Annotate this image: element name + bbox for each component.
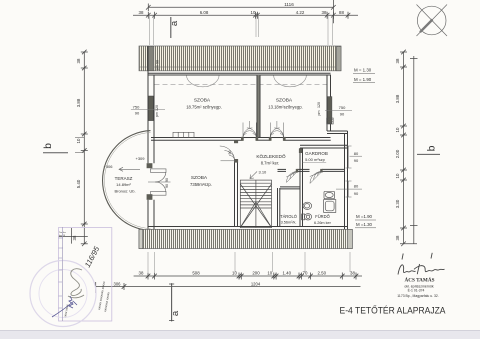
svg-text:90: 90 <box>228 151 232 155</box>
section marker b left <box>42 143 68 153</box>
svg-text:38: 38 <box>139 271 144 276</box>
svg-text:10: 10 <box>395 173 400 178</box>
left wall window dim leader <box>131 109 165 111</box>
tarolo top wall <box>280 187 300 189</box>
chimney symbol at corner <box>327 118 334 124</box>
left wall window (dark) <box>148 96 153 121</box>
svg-text:120: 120 <box>317 102 321 108</box>
stamp rectangle <box>59 228 112 322</box>
terrace french door leaves <box>148 169 171 195</box>
svg-text:14.89m²: 14.89m² <box>116 182 131 187</box>
door swing szoba-kozlekedo <box>220 146 235 161</box>
svg-text:pm: pm <box>317 111 321 116</box>
svg-text:38: 38 <box>139 10 144 15</box>
crease line <box>62 227 64 321</box>
svg-text:1173 Bp., Magyarfalu u. 32.: 1173 Bp., Magyarfalu u. 32. <box>397 294 438 298</box>
stamp inner faint text lines <box>63 281 110 319</box>
svg-text:M = 1.30: M = 1.30 <box>354 68 372 73</box>
svg-text:1116: 1116 <box>284 2 294 7</box>
svg-text:ker 15: ker 15 <box>59 234 66 237</box>
gardrob closet line <box>303 162 327 164</box>
svg-text:SZOBA: SZOBA <box>191 175 208 181</box>
svg-text:SZOBA: SZOBA <box>276 98 293 104</box>
svg-text:b: b <box>42 143 54 149</box>
top dimension line 2 segments <box>133 12 358 19</box>
extension stubs above building <box>150 16 333 45</box>
svg-text:10: 10 <box>251 10 256 15</box>
top balcony hatched strip <box>139 46 341 71</box>
right wall window (dark) <box>327 97 332 124</box>
right dimension column <box>400 50 418 246</box>
svg-text:6.26m ker: 6.26m ker <box>314 221 332 225</box>
svg-text:750: 750 <box>339 105 346 110</box>
middle wall between SZOBA1 and SZOBA2 <box>257 75 260 138</box>
FURDO fixtures <box>302 191 336 220</box>
svg-text:3.88: 3.88 <box>76 98 81 107</box>
svg-text:1.40: 1.40 <box>283 271 292 276</box>
radiator symbol SZOBA1 <box>173 132 194 137</box>
top dimension line 1116 total <box>148 6 333 8</box>
section marker a top <box>169 17 180 38</box>
svg-text:2.00: 2.00 <box>395 149 400 158</box>
svg-text:90: 90 <box>354 191 359 196</box>
extension stubs below balcony <box>148 252 350 272</box>
bottom dimension line B (1204 total) <box>96 282 361 293</box>
right wall upper (SZOBA2) <box>327 75 331 132</box>
toilet lower with cistern <box>302 214 305 220</box>
stairs <box>240 180 271 227</box>
svg-text:90: 90 <box>354 158 359 163</box>
svg-text:90: 90 <box>135 111 140 116</box>
left dimension column <box>59 50 88 246</box>
svg-text:Bronos: Ub.: Bronos: Ub. <box>114 189 135 194</box>
bathtub <box>324 200 336 213</box>
svg-text:90: 90 <box>165 178 169 182</box>
balcony door swing SZOBA2 <box>274 75 307 87</box>
mid horizontal wall H2 <box>151 138 331 141</box>
terrace door posts <box>147 163 153 168</box>
svg-text:FÜRDŐ: FÜRDŐ <box>315 214 330 219</box>
svg-text:pm: pm <box>156 65 160 70</box>
vestibule door to TAROLO <box>286 171 297 182</box>
svg-text:2.50: 2.50 <box>318 271 327 276</box>
svg-text:KÖZLEKEDŐ: KÖZLEKEDŐ <box>256 153 286 160</box>
section marker b right <box>417 145 440 154</box>
svg-text:88: 88 <box>339 10 344 15</box>
terrace arc <box>103 131 151 231</box>
80/90 leader upper (gardrob) <box>346 146 363 168</box>
svg-text:b: b <box>426 145 438 151</box>
wall V8 between tarolo and furdo <box>300 148 303 227</box>
top dim labels <box>139 10 345 15</box>
svg-text:+309: +309 <box>136 156 146 161</box>
svg-text:38: 38 <box>395 58 400 63</box>
corridor wall with door gaps <box>278 169 345 171</box>
svg-text:8.7m² ker.: 8.7m² ker. <box>261 161 280 166</box>
svg-text:13.18m²szőnyegp.: 13.18m²szőnyegp. <box>268 105 302 110</box>
top wall (balcony edge) double line <box>148 73 331 75</box>
svg-text:pm: pm <box>155 112 159 117</box>
M=190 / M=130 labels right mid <box>355 214 376 228</box>
svg-text:3.56m²/k.: 3.56m²/k. <box>281 221 297 225</box>
svg-text:10: 10 <box>267 271 272 276</box>
washbasin <box>324 191 335 198</box>
step wall top-right corner <box>327 131 348 134</box>
svg-text:SZOBA: SZOBA <box>194 98 211 104</box>
svg-text:90: 90 <box>165 184 169 188</box>
svg-text:10: 10 <box>395 127 400 132</box>
svg-text:90: 90 <box>340 112 345 117</box>
svg-text:200: 200 <box>252 271 260 276</box>
right wall lower <box>345 131 348 230</box>
svg-text:306: 306 <box>114 281 122 286</box>
80/90 leader lower (furdo) <box>336 181 362 197</box>
svg-text:38: 38 <box>72 235 77 240</box>
architect signature handwriting <box>398 253 445 275</box>
svg-text:10: 10 <box>232 271 237 276</box>
svg-text:7359m²szp.: 7359m²szp. <box>190 182 212 187</box>
section marker a bottom <box>169 283 181 321</box>
svg-text:M = 1.90: M = 1.90 <box>354 77 372 82</box>
balcony door swing SZOBA1 <box>187 75 220 87</box>
svg-text:120: 120 <box>155 105 159 111</box>
svg-text:E-4 TETŐTÉR ALAPRAJZA: E-4 TETŐTÉR ALAPRAJZA <box>340 305 447 316</box>
svg-text:508: 508 <box>192 271 200 276</box>
M=130 / M=190 labels top right <box>353 68 375 83</box>
GARDROB top wall <box>300 145 348 148</box>
arrow terrace <box>119 167 140 171</box>
svg-text:80: 80 <box>354 184 359 189</box>
svg-text:GARDROB: GARDROB <box>305 151 328 156</box>
scanner grey band bottom <box>0 331 480 339</box>
svg-text:70: 70 <box>303 271 308 276</box>
svg-text:TÁROLÓ: TÁROLÓ <box>280 214 297 219</box>
north symbol circle-X <box>417 5 448 37</box>
bottom exterior wall <box>148 227 348 230</box>
svg-text:38: 38 <box>322 10 327 15</box>
svg-text:M =1.30: M =1.30 <box>356 222 373 227</box>
svg-text:10: 10 <box>76 138 81 143</box>
svg-text:6.08: 6.08 <box>200 10 209 15</box>
svg-text:3.88: 3.88 <box>395 94 400 103</box>
svg-text:5.40: 5.40 <box>76 179 81 188</box>
svg-text:1204: 1204 <box>251 281 261 286</box>
signature squiggle dark <box>68 269 84 298</box>
svg-text:a: a <box>170 310 181 316</box>
FURDO door fan <box>310 171 322 183</box>
door posts on mid wall <box>241 137 244 141</box>
svg-text:Tsz fsz: Tsz fsz <box>59 232 66 234</box>
svg-text:80: 80 <box>354 151 359 156</box>
svg-text:É-1 01-374: É-1 01-374 <box>408 288 425 293</box>
bottom balcony hatched strip <box>139 229 352 248</box>
svg-text:38: 38 <box>76 58 81 63</box>
svg-text:a: a <box>169 20 180 26</box>
svg-text:3.10: 3.10 <box>259 170 268 175</box>
wall V6 between szoba and stairs <box>235 159 238 227</box>
door posts corridor <box>296 169 298 173</box>
svg-text:750: 750 <box>133 104 140 109</box>
seal circle <box>30 261 96 327</box>
wall V7 right of stairs <box>278 188 280 227</box>
left dim tick dashes mid <box>75 137 84 139</box>
svg-text:3.30: 3.30 <box>395 199 400 208</box>
svg-text:ÁCS TAMÁS: ÁCS TAMÁS <box>405 276 435 284</box>
svg-text:90: 90 <box>156 60 160 64</box>
svg-text:38: 38 <box>350 271 355 276</box>
bottom dimension line A <box>134 273 362 280</box>
svg-text:18.75m² szőnyegp.: 18.75m² szőnyegp. <box>186 105 222 110</box>
left exterior wall <box>148 46 154 230</box>
svg-text:38: 38 <box>395 235 400 240</box>
door fan SZOBA2 (double leaf) <box>270 121 283 137</box>
svg-text:M =1.90: M =1.90 <box>356 214 373 219</box>
svg-text:TERASZ: TERASZ <box>115 176 133 181</box>
svg-text:5.00 m²szp: 5.00 m²szp <box>305 157 326 162</box>
door fan SZOBA1 (double leaf) <box>243 121 256 137</box>
dashed roof line upper rooms <box>155 84 330 86</box>
toilet upper <box>303 202 312 209</box>
svg-text:4.22: 4.22 <box>296 10 305 15</box>
